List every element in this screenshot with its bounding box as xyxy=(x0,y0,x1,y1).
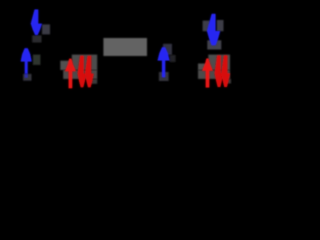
gray stub bottom-right (right paired-spin group) xyxy=(225,79,231,84)
spin-up electron arrow (right site, mid level) xyxy=(158,47,170,77)
red spin-up electron (left pair) xyxy=(65,59,76,89)
gray platform upper-right (right paired-spin group) xyxy=(208,55,230,70)
gray box right of left up-spin arrowhead xyxy=(33,55,41,65)
spin-down electron arrow (right site, upper level) xyxy=(207,14,220,45)
gray box below left down-spin arrow tip xyxy=(32,35,41,42)
gray box below left up-spin arrow shaft xyxy=(23,74,31,81)
gray box above right up-spin arrow tip xyxy=(163,44,172,55)
gray platform lower band (right paired-spin group) xyxy=(198,70,230,79)
gray platform upper-right (left paired-spin group) xyxy=(72,55,97,70)
gray box below right up-spin arrow shaft xyxy=(159,72,169,81)
gray box right of right up-spin arrowhead xyxy=(170,55,176,62)
red spin-down electron 1 (right pair) xyxy=(215,55,224,87)
central gray label box xyxy=(103,38,147,56)
spin-down electron arrow (left site, upper level) xyxy=(31,10,42,36)
gray box below right down-spin tip xyxy=(207,40,221,49)
gray box left of right down-spin shaft xyxy=(203,21,210,32)
gray platform left block (right paired-spin group) xyxy=(198,64,208,71)
gray platform lower band (left paired-spin group) xyxy=(63,70,97,79)
red spin-down electron 2 (right pair) xyxy=(221,55,230,87)
red spin-down electron 1 (left pair) xyxy=(78,56,87,88)
gray box right of left down-spin arrowhead xyxy=(42,24,50,34)
gray stub bottom-right (left paired-spin group) xyxy=(91,79,98,84)
spin-up electron arrow (left site, lower level) xyxy=(21,48,32,73)
red spin-up electron (right pair) xyxy=(202,59,213,88)
gray box right of right down-spin shaft xyxy=(217,20,224,31)
gray platform left block (left paired-spin group) xyxy=(60,61,72,70)
red spin-down electron 2 (left pair) xyxy=(85,56,94,88)
